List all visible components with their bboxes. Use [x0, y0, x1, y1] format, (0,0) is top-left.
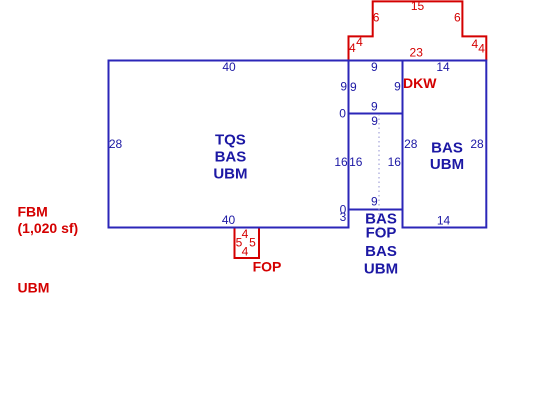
svg-text:16: 16: [334, 155, 348, 169]
middle area divider wall y=113.5: [349, 113, 403, 115]
svg-text:9: 9: [371, 114, 378, 128]
svg-text:40: 40: [222, 60, 236, 74]
svg-text:14: 14: [437, 214, 451, 228]
svg-text:6: 6: [373, 11, 380, 25]
svg-text:FOP: FOP: [366, 225, 397, 242]
svg-text:23: 23: [410, 46, 424, 60]
svg-text:4: 4: [242, 227, 249, 241]
svg-text:15: 15: [411, 0, 425, 13]
svg-text:(1,020 sf): (1,020 sf): [18, 220, 79, 236]
svg-text:9: 9: [340, 80, 347, 94]
svg-text:DKW: DKW: [403, 75, 437, 91]
middle area top wall: [349, 60, 403, 62]
svg-text:UBM: UBM: [430, 156, 464, 173]
svg-text:9: 9: [394, 80, 401, 94]
svg-text:BAS: BAS: [431, 140, 463, 157]
svg-text:14: 14: [436, 60, 450, 74]
svg-text:16: 16: [388, 155, 402, 169]
svg-text:28: 28: [470, 137, 484, 151]
svg-text:4: 4: [478, 42, 485, 56]
svg-text:4: 4: [356, 35, 363, 49]
svg-text:BAS: BAS: [365, 243, 397, 260]
svg-text:9: 9: [371, 100, 378, 114]
svg-text:28: 28: [109, 137, 123, 151]
svg-text:TQS: TQS: [215, 132, 246, 149]
svg-text:UBM: UBM: [364, 261, 398, 278]
middle area bottom wall y=209.5: [349, 209, 403, 211]
svg-text:FOP: FOP: [253, 259, 282, 275]
svg-text:BAS: BAS: [215, 149, 247, 166]
svg-text:3: 3: [340, 210, 347, 224]
svg-text:28: 28: [404, 137, 418, 151]
svg-text:FBM: FBM: [18, 203, 48, 219]
svg-text:4: 4: [349, 41, 356, 55]
dotted interior line: [378, 114, 380, 240]
svg-text:5: 5: [249, 236, 256, 250]
svg-text:9: 9: [350, 80, 357, 94]
svg-text:16: 16: [349, 155, 363, 169]
svg-text:6: 6: [454, 10, 461, 24]
svg-text:0: 0: [339, 107, 346, 121]
svg-text:9: 9: [371, 195, 378, 209]
svg-text:4: 4: [242, 245, 249, 259]
svg-text:40: 40: [222, 213, 236, 227]
main area TQS/BAS/UBM outline: [109, 61, 349, 228]
svg-text:UBM: UBM: [213, 165, 247, 182]
svg-text:UBM: UBM: [18, 279, 50, 295]
right area BAS/UBM outline: [403, 61, 487, 228]
porch FOP outline: [235, 228, 260, 259]
deck DKW outline: [349, 1, 487, 60]
svg-text:9: 9: [371, 60, 378, 74]
